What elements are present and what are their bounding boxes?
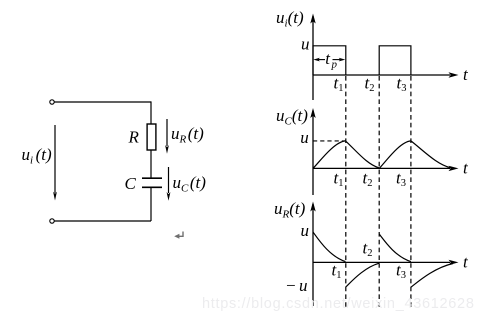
capacitor C top plate [142, 177, 162, 179]
waveform u_C charge 2 [379, 141, 411, 169]
svg-text:u: u [300, 128, 309, 147]
svg-text:u: u [301, 35, 310, 54]
arrow u_C polarity [167, 167, 171, 201]
svg-text:t3: t3 [396, 261, 406, 282]
svg-text:tp: tp [325, 49, 337, 71]
waveform u_C discharge 1 [346, 141, 380, 168]
resistor R [147, 124, 156, 150]
svg-text:https://blog.csdn.net/weixin_4: https://blog.csdn.net/weixin_43612628 [202, 296, 475, 312]
plot3 x-axis [313, 260, 459, 265]
wire top horizontal [55, 101, 152, 103]
dimension arrow t_p [313, 58, 345, 62]
svg-text:t2: t2 [363, 169, 373, 190]
waveform u_i pulse 2 [379, 46, 411, 75]
waveform u_C discharge 2 [411, 141, 451, 168]
svg-text:t1: t1 [334, 74, 344, 95]
svg-text:t2: t2 [365, 74, 375, 95]
wire capacitor to bottom [150, 188, 152, 221]
svg-text:t: t [463, 253, 469, 272]
svg-text:t3: t3 [397, 74, 407, 95]
svg-text:C: C [125, 174, 137, 193]
svg-text:uC(t): uC(t) [173, 173, 207, 195]
svg-text:u: u [301, 221, 310, 240]
node: input terminal top [50, 100, 54, 104]
svg-text:−u: −u [285, 276, 307, 295]
waveform u_R decay 2 [379, 234, 411, 262]
svg-text:t1: t1 [332, 261, 342, 282]
node: input terminal bottom [50, 219, 54, 223]
waveform u_R decay 1 [313, 232, 346, 262]
waveform u_i pulse 1 [313, 46, 346, 75]
svg-text:t2: t2 [363, 239, 373, 260]
plot2 y-axis [310, 108, 315, 195]
svg-text:uR(t): uR(t) [274, 199, 306, 221]
svg-text:ui(t): ui(t) [22, 145, 52, 167]
dashed line t3 [410, 76, 412, 308]
svg-text:uR(t): uR(t) [171, 124, 204, 146]
waveform u_C charge 1 [313, 141, 346, 169]
waveform u_R negative 2 [411, 264, 453, 288]
svg-text:uC(t): uC(t) [276, 106, 308, 128]
wire resistor to capacitor [150, 150, 152, 178]
plot1 x-axis [313, 72, 459, 77]
svg-text:ui(t): ui(t) [276, 8, 304, 30]
dashed line t1 [345, 76, 347, 308]
svg-text:t1: t1 [334, 169, 344, 190]
arrow u_R polarity [165, 119, 169, 154]
svg-text:t: t [463, 159, 469, 178]
return mark [174, 232, 183, 239]
wire bottom horizontal [55, 220, 152, 222]
wire from top wire down to resistor [150, 101, 152, 124]
capacitor C bottom plate [142, 186, 162, 188]
svg-text:t3: t3 [396, 169, 406, 190]
waveform u_R negative 1 [346, 263, 379, 287]
svg-text:t: t [463, 65, 469, 84]
plot1 y-axis [310, 14, 315, 101]
plot3 y-axis [310, 202, 315, 307]
plot2 dashed level u [313, 140, 345, 142]
arrow u_i polarity [53, 125, 57, 201]
svg-text:R: R [128, 128, 140, 147]
plot2 x-axis [313, 166, 459, 171]
dashed line t2 [378, 76, 380, 308]
